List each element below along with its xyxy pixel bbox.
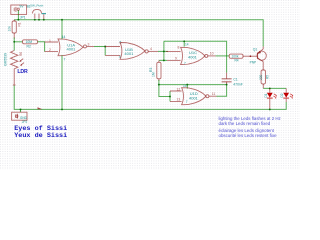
wire LDR down to bottom net [14, 86, 286, 110]
svg-text:R1: R1 [17, 22, 21, 26]
svg-text:7: 7 [186, 100, 188, 104]
transistor Q1 [257, 49, 266, 70]
wire R2 to U1A inputs tie [38, 42, 45, 52]
node C1 bottom junction [226, 84, 228, 86]
svg-text:10M: 10M [26, 40, 33, 44]
svg-text:4: 4 [150, 47, 152, 51]
info text blue [219, 116, 281, 138]
node U1B input tie junction [104, 46, 106, 48]
svg-text:14: 14 [62, 35, 66, 39]
svg-text:R3: R3 [149, 68, 153, 72]
svg-text:LDR: LDR [17, 69, 28, 75]
resistor R2 [23, 40, 38, 44]
node LED D1 bottom junction [269, 108, 271, 110]
pin stubs U1A inputs [45, 42, 58, 52]
LED D1 arrows [273, 94, 276, 98]
svg-text:220: 220 [259, 74, 263, 80]
svg-text:8: 8 [178, 46, 180, 50]
wire top supply net [14, 20, 263, 47]
pin stubs U1B [105, 47, 120, 56]
node U1D top pin junction [186, 84, 188, 86]
svg-text:D2: D2 [280, 93, 284, 97]
pin 14 wire U1A [61, 20, 63, 40]
svg-text:R4: R4 [235, 59, 239, 63]
gate U1B [120, 43, 158, 60]
battery JP1 box [11, 5, 27, 14]
svg-text:10k: 10k [8, 26, 12, 32]
node divider junction [13, 41, 15, 43]
svg-text:11: 11 [212, 92, 216, 96]
svg-text:470nF: 470nF [233, 82, 243, 86]
resistor R5 [261, 70, 265, 88]
svg-text:JP1: JP1 [20, 15, 26, 19]
node switch leg 2 on net [38, 19, 40, 21]
net arrow on bottom wire [38, 107, 43, 109]
svg-text:10: 10 [210, 51, 214, 55]
svg-text:GM5539: GM5539 [4, 53, 8, 66]
wire to U1D top [159, 84, 227, 86]
svg-text:obscurité les Leds restent fix: obscurité les Leds restent fixe [219, 133, 278, 138]
svg-text:2: 2 [49, 48, 51, 52]
wire battery pin drop [17, 10, 19, 20]
svg-text:4001: 4001 [189, 96, 199, 101]
capacitor C1 [222, 79, 232, 82]
svg-text:Yeux de Sissi: Yeux de Sissi [14, 132, 67, 140]
node U1A pin7 junction [61, 108, 63, 110]
svg-text:12: 12 [177, 87, 181, 91]
svg-text:3: 3 [88, 42, 90, 46]
svg-text:R5: R5 [266, 75, 270, 79]
power flag T [43, 14, 45, 19]
wire U1A out to U1B in [94, 47, 105, 56]
LED D2 arrows [290, 94, 293, 98]
wire U1D out to C1 bottom [217, 85, 227, 97]
svg-text:PNP: PNP [250, 61, 257, 65]
svg-text:4001: 4001 [188, 54, 198, 59]
LED D1 [269, 88, 271, 92]
emitter wire tick [262, 47, 264, 50]
svg-text:4001: 4001 [124, 51, 134, 56]
wire pin9 [164, 59, 167, 61]
svg-text:dark the Leds remain fixed: dark the Leds remain fixed [219, 121, 271, 126]
svg-text:Q1: Q1 [253, 48, 258, 52]
wire U1B out to U1C in8 [158, 50, 168, 52]
wire R1 to junction [13, 38, 15, 51]
svg-text:SW_Push: SW_Push [30, 3, 44, 7]
node LED rail junction [269, 87, 271, 89]
svg-text:14: 14 [183, 84, 187, 88]
LDR bottom pin [13, 72, 16, 86]
node JP2 tap [20, 108, 22, 110]
resistor R4 [229, 54, 257, 58]
pin 7 wire U1A [61, 55, 63, 109]
resistor R1 [12, 20, 16, 39]
pin stubs U1D [170, 91, 182, 101]
node R3 branch junction [158, 84, 160, 86]
gate U1A [58, 39, 94, 56]
pin 14 stub U1C top [183, 41, 185, 46]
svg-text:R2: R2 [27, 45, 31, 49]
svg-text:9: 9 [175, 56, 177, 60]
node pin9 junction [163, 59, 165, 61]
wire LED rail [263, 87, 286, 89]
LDR photoresistor [11, 51, 25, 72]
node feedback crossing [163, 50, 165, 52]
wire junction to R2 [14, 41, 22, 43]
emitter arrow PNP [258, 51, 261, 54]
wire JP2 stub [20, 109, 22, 112]
svg-text:1: 1 [49, 39, 51, 43]
connector JP2 box [12, 112, 27, 120]
node switch leg 1 on net [34, 19, 36, 21]
feedback vertical [159, 41, 164, 60]
node R4 to Q1 base [250, 55, 252, 57]
svg-text:4001: 4001 [67, 46, 77, 51]
gate U1C [181, 47, 216, 64]
tie U1D inputs [169, 91, 171, 101]
svg-text:7: 7 [64, 57, 66, 61]
svg-text:D1: D1 [264, 93, 268, 97]
resistor R3 [157, 60, 161, 81]
svg-text:JP2: JP2 [22, 120, 28, 124]
pin stub U1C in8 [166, 51, 181, 53]
svg-text:14: 14 [185, 43, 189, 47]
svg-text:C1: C1 [233, 77, 237, 81]
wire U1C out to R4 [216, 55, 230, 57]
gate U1D [182, 88, 217, 105]
feedback top line [164, 41, 227, 72]
LED D2 [285, 88, 287, 92]
switch S1 [32, 9, 41, 18]
svg-text:7: 7 [184, 62, 186, 66]
svg-text:13: 13 [177, 98, 181, 102]
wire R3 bottom net [159, 80, 170, 97]
node power flag on net [43, 19, 45, 21]
node battery-net junction [17, 19, 19, 21]
svg-text:R6: R6 [19, 52, 23, 56]
node U1A pin14 junction [61, 19, 63, 21]
